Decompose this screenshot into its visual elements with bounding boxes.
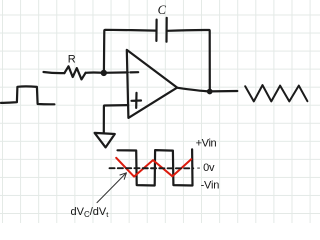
wire from input to resistor [44, 72, 65, 73]
resistor R [64, 66, 85, 79]
ground symbol [95, 133, 115, 148]
junction node at inverting input [101, 70, 106, 75]
noninverting input wire to ground [104, 105, 128, 133]
annotation arrow to 0v crossing [97, 173, 126, 203]
waveform plot: input square-wave trace [118, 149, 193, 185]
feedback wire up to capacitor [104, 30, 155, 73]
svg-text:R: R [68, 54, 76, 66]
input square-wave source symbol [1, 86, 54, 104]
capacitor C right plate [165, 18, 167, 42]
svg-text:-Vin: -Vin [201, 180, 220, 192]
wire resistor to inverting input [86, 71, 128, 74]
svg-text:dVC/dVt: dVC/dVt [71, 206, 110, 219]
zero volt dashed line [110, 167, 194, 169]
waveform plot: capacitor voltage triangle trace (red) [116, 158, 191, 177]
op-amp inverting input minus sign [130, 71, 138, 73]
output triangle-wave symbol [245, 85, 307, 101]
op-amp U1 triangle [127, 50, 177, 118]
op-amp noninverting input plus sign [132, 93, 142, 108]
output node junction [207, 89, 212, 94]
svg-text:C: C [158, 3, 167, 17]
output wire [177, 88, 237, 92]
svg-text:- 0v: - 0v [197, 162, 215, 174]
wire capacitor to output node [168, 30, 210, 91]
capacitor C left plate [155, 20, 157, 41]
svg-text:+Vin: +Vin [196, 137, 217, 149]
